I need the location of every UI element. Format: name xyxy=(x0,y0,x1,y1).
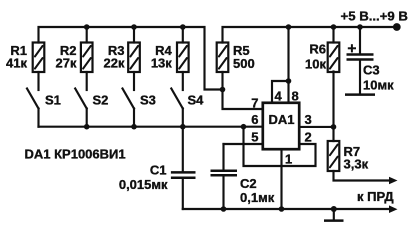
svg-text:S4: S4 xyxy=(188,93,205,108)
svg-text:+5 В...+9 В: +5 В...+9 В xyxy=(341,9,408,24)
svg-text:4: 4 xyxy=(275,89,283,104)
svg-text:10мк: 10мк xyxy=(363,78,394,93)
svg-text:S2: S2 xyxy=(93,93,109,108)
svg-text:0,1мк: 0,1мк xyxy=(240,190,275,205)
svg-text:5: 5 xyxy=(251,130,258,145)
svg-text:S3: S3 xyxy=(140,93,156,108)
svg-text:C1: C1 xyxy=(150,163,167,178)
svg-text:DA1: DA1 xyxy=(268,112,294,127)
svg-text:27к: 27к xyxy=(56,56,77,71)
svg-text:S1: S1 xyxy=(45,93,61,108)
svg-text:7: 7 xyxy=(251,96,258,111)
svg-text:1: 1 xyxy=(285,152,292,167)
svg-text:41к: 41к xyxy=(6,56,27,71)
svg-text:3: 3 xyxy=(305,112,312,127)
svg-text:13к: 13к xyxy=(151,56,172,71)
svg-text:R6: R6 xyxy=(309,42,326,57)
svg-text:к ПРД: к ПРД xyxy=(357,189,394,204)
svg-text:DA1 КР1006ВИ1: DA1 КР1006ВИ1 xyxy=(25,147,126,162)
svg-text:8: 8 xyxy=(292,89,299,104)
svg-text:22к: 22к xyxy=(104,56,125,71)
svg-text:10к: 10к xyxy=(305,57,326,72)
svg-text:0,015мк: 0,015мк xyxy=(119,177,168,192)
svg-text:C2: C2 xyxy=(240,176,257,191)
svg-text:3,3к: 3,3к xyxy=(344,157,369,172)
svg-text:6: 6 xyxy=(251,112,258,127)
svg-text:C3: C3 xyxy=(363,63,380,78)
svg-text:2: 2 xyxy=(305,130,312,145)
svg-text:500: 500 xyxy=(233,56,255,71)
